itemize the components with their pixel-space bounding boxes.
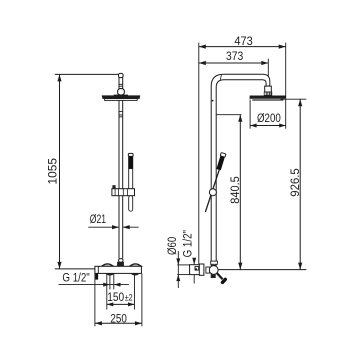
svg-text:373: 373 [226,49,243,63]
svg-text:150: 150 [107,290,124,304]
svg-text:G 1/2": G 1/2" [181,230,195,257]
svg-text:Ø21: Ø21 [90,212,106,226]
svg-text:926.5: 926.5 [288,168,302,197]
svg-text:473: 473 [234,34,253,48]
svg-text:G 1/2": G 1/2" [62,270,89,284]
svg-text:±2: ±2 [125,293,133,303]
svg-text:1055: 1055 [45,158,59,185]
svg-text:840.5: 840.5 [228,176,242,204]
svg-text:Ø200: Ø200 [257,111,281,125]
svg-text:Ø60: Ø60 [165,237,179,255]
